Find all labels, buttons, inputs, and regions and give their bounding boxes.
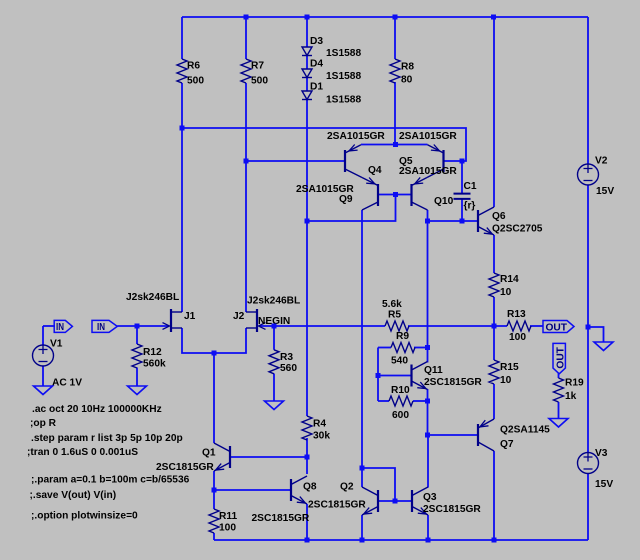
port flag IN at R12: [92, 320, 117, 333]
wire R7 to J2 drain: [245, 83, 247, 312]
svg-text:Q3: Q3: [423, 492, 437, 503]
svg-text:2SA1015GR: 2SA1015GR: [327, 131, 385, 142]
wire V1 to IN flag: [43, 325, 55, 327]
svg-text:R3: R3: [280, 352, 293, 363]
svg-text:600: 600: [392, 410, 409, 421]
svg-text:{r}: {r}: [464, 201, 476, 212]
svg-text:J1: J1: [184, 311, 196, 322]
svg-text:Q1: Q1: [202, 448, 216, 459]
directive ;.option: [31, 511, 138, 522]
svg-text:80: 80: [401, 75, 413, 86]
svg-text:10: 10: [500, 375, 512, 386]
wire Q9 collector down to mirror: [361, 210, 363, 468]
wire Q10 collector / VAS node down: [427, 210, 429, 348]
ground under R19: [549, 419, 568, 428]
svg-text:OUT: OUT: [556, 346, 567, 368]
svg-text:J2: J2: [233, 311, 245, 322]
port flag OUT: [543, 321, 574, 334]
wire VAS node to Q6 base: [428, 220, 479, 222]
svg-text:2SC1815GR: 2SC1815GR: [156, 462, 214, 473]
transistor Q9 2SA1015GR: [296, 178, 378, 211]
svg-text:100: 100: [509, 332, 526, 343]
node Q8 emitter/bottom rail: [305, 538, 310, 543]
node Q9-Q10 bases: [393, 192, 398, 197]
svg-text:AC 1V: AC 1V: [52, 378, 82, 389]
wire OUT flag to R19: [558, 373, 560, 378]
svg-text:100: 100: [219, 523, 236, 534]
svg-text:R10: R10: [391, 385, 410, 396]
node Q5 base/C1: [460, 159, 465, 164]
wire R9 left lead: [378, 347, 391, 349]
svg-text:R19: R19: [565, 378, 584, 389]
svg-text:15V: 15V: [596, 186, 614, 197]
wire R14 to OUT node: [493, 297, 495, 326]
wire R12 to ground: [136, 368, 138, 387]
svg-text:D4: D4: [310, 59, 323, 70]
wire top V+ rail: [182, 16, 588, 18]
svg-text:;op R: ;op R: [30, 418, 57, 429]
svg-text:;.save V(out) V(in): ;.save V(out) V(in): [30, 490, 117, 501]
svg-text:1S1588: 1S1588: [326, 48, 361, 59]
wire Q2 collector up: [361, 468, 363, 487]
svg-text:2SC1815GR: 2SC1815GR: [252, 513, 310, 524]
svg-text:R7: R7: [251, 61, 264, 72]
wire C1 bottom lead: [461, 200, 463, 222]
resistor R12: [132, 344, 166, 370]
wire C1 top lead: [461, 161, 463, 193]
wire R10 left lead: [378, 400, 389, 402]
node R10/Q11 emitter: [425, 399, 430, 404]
transistor Q6 Q2SC2705: [478, 207, 543, 235]
node OUT/R14/R15: [492, 324, 497, 329]
svg-text:Q4: Q4: [368, 165, 382, 176]
resistor R3: [269, 350, 297, 374]
wire R11 top lead: [213, 490, 215, 509]
transistor Q2 2SC1815GR: [340, 482, 378, 516]
resistor R8: [390, 59, 414, 86]
svg-text:V3: V3: [595, 448, 608, 459]
port flag IN at V1: [54, 320, 72, 333]
transistor Q3 2SC1815GR: [412, 487, 481, 515]
wire R9/R10 left loop: [377, 348, 379, 402]
node Q7 collector/bottom rail: [492, 538, 497, 543]
node C1/Q6 base: [460, 219, 465, 224]
svg-text:500: 500: [187, 76, 204, 87]
port flag OUT vertical: [553, 343, 567, 373]
svg-text:J2sk246BL: J2sk246BL: [126, 292, 179, 303]
svg-text:1S1588: 1S1588: [326, 71, 361, 82]
node Q2 emitter/bottom rail: [360, 538, 365, 543]
node R9/Q11 collector: [425, 345, 430, 350]
wire R3 to ground: [273, 374, 275, 401]
resistor R9: [391, 331, 415, 367]
transistor Q1 2SC1815GR: [156, 443, 230, 473]
svg-text:OUT: OUT: [546, 323, 568, 334]
directive ;.param: [31, 475, 190, 486]
node Q4-Q5 emitters/R8: [393, 142, 398, 147]
wire Q2 diode connection loop: [362, 468, 395, 501]
resistor R13: [507, 309, 531, 343]
wire Q1 emitter to Q8 base: [214, 489, 291, 491]
svg-text:D3: D3: [310, 36, 323, 47]
wire Q1 emitter down: [213, 471, 215, 490]
node diode bias/R4: [305, 219, 310, 224]
resistor R7: [241, 59, 268, 87]
resistor R6: [177, 59, 204, 87]
wire Q3 emitter to rail: [427, 515, 429, 540]
svg-text:R14: R14: [500, 274, 519, 285]
wire Q2 base to node: [378, 500, 395, 502]
voltage source V3 15V: [578, 448, 614, 490]
wire Q11 collector to R9 node: [427, 348, 429, 363]
svg-text:5.6k: 5.6k: [382, 299, 402, 310]
transistor Q5 2SA1015GR: [399, 131, 457, 178]
svg-text:R12: R12: [143, 347, 162, 358]
node diode chain/top rail: [305, 15, 310, 20]
node IN/R12: [135, 324, 140, 329]
directive ;tran: [27, 447, 138, 458]
svg-text:30k: 30k: [313, 431, 330, 442]
node R7/Q4 base: [244, 159, 249, 164]
svg-text:560: 560: [280, 363, 297, 374]
diode D3: [302, 36, 361, 59]
ground under V1: [34, 386, 53, 395]
wire mirror bases: [395, 500, 412, 502]
wire V2 minus to supply midpoint: [587, 185, 589, 327]
wire R7 top lead: [245, 17, 247, 59]
wire bottom rail: [214, 539, 588, 541]
svg-text:;tran 0 1.6uS 0 0.001uS: ;tran 0 1.6uS 0 0.001uS: [27, 447, 138, 458]
wire Q11 emitter to R10 node and Q7 base: [427, 389, 429, 435]
voltage source V1 AC 1V: [33, 339, 83, 389]
wire top rail to D3: [306, 17, 308, 47]
node Q10 collector/Q6 base wire: [425, 219, 430, 224]
svg-text:V2: V2: [595, 156, 608, 167]
transistor Q11 2SC1815GR: [412, 362, 483, 390]
wire R12 top lead: [136, 326, 138, 344]
svg-text:IN: IN: [97, 322, 105, 333]
wire R6 to J1 drain: [181, 83, 183, 312]
wire R15 to Q7 emitter: [493, 384, 495, 419]
svg-text:D1: D1: [310, 82, 323, 93]
resistor R19: [554, 378, 585, 403]
node Q2-Q3 bases: [393, 499, 398, 504]
svg-text:.step param r list 3p 5p 10p 2: .step param r list 3p 5p 10p 20p: [31, 433, 183, 444]
resistor R11: [209, 509, 237, 534]
node Q3 emitter/bottom rail: [426, 538, 431, 543]
svg-text:1S1588: 1S1588: [326, 95, 361, 106]
resistor R10: [389, 385, 413, 421]
transistor Q7 Q2SA1145: [478, 419, 550, 451]
wire OUT node to R15: [493, 326, 495, 360]
transistor Q4 2SA1015GR: [327, 131, 385, 178]
node Q6 collector/top rail: [491, 15, 496, 20]
svg-text:Q2: Q2: [340, 482, 354, 493]
wire Q9-Q10 base tie: [378, 194, 412, 196]
svg-text:2SA1015GR: 2SA1015GR: [399, 131, 457, 142]
net label NEGIN: [258, 316, 290, 327]
node Q1 base/R4/Q8 collector: [305, 455, 310, 460]
wire IN to J1 gate: [117, 325, 168, 327]
wire V+ rail to V2: [587, 17, 589, 164]
transistor Q8 2SC1815GR: [252, 476, 367, 524]
wire Q4/Q5 emitter node: [361, 144, 428, 146]
svg-text:R6: R6: [187, 61, 200, 72]
wire Q7 collector to bottom rail: [493, 451, 495, 540]
resistor R4: [302, 416, 330, 442]
wire D1 cathode down to R4: [306, 100, 308, 417]
wire NEGIN J2 gate to R5: [260, 325, 386, 327]
wire D3 to D4: [306, 56, 308, 70]
svg-text:J2sk246BL: J2sk246BL: [247, 296, 300, 307]
svg-text:1k: 1k: [565, 391, 577, 402]
svg-text:Q6: Q6: [492, 211, 506, 222]
svg-text:V1: V1: [50, 339, 63, 350]
svg-text:10: 10: [500, 287, 512, 298]
svg-text:Q11: Q11: [424, 365, 443, 376]
node R7/top rail: [244, 15, 249, 20]
wire R6 node to Q5 base: [182, 128, 466, 161]
svg-text:Q2SC2705: Q2SC2705: [492, 224, 543, 235]
wire R3 top lead: [273, 326, 275, 350]
svg-text:Q10: Q10: [434, 196, 454, 207]
svg-text:Q8: Q8: [303, 482, 317, 493]
svg-text:IN: IN: [56, 322, 64, 333]
node supply midpoint ground: [586, 325, 591, 330]
wire Q4 base to R7 node: [246, 160, 345, 162]
svg-text:.ac oct 20 10Hz 100000KHz: .ac oct 20 10Hz 100000KHz: [32, 404, 162, 415]
wire Q11 base: [378, 375, 412, 377]
node Q2 collector/Q9 collector: [360, 466, 365, 471]
directive .ac: [32, 404, 162, 415]
wire Q7 base: [428, 434, 479, 436]
diode D4: [302, 59, 361, 83]
wire Q6 collector to top rail: [493, 17, 495, 207]
svg-text:2SC1815GR: 2SC1815GR: [424, 377, 482, 388]
wire Q2 emitter to rail: [361, 515, 363, 540]
svg-text:2SA1015GR: 2SA1015GR: [399, 166, 457, 177]
resistor R14: [489, 273, 519, 298]
wire R9 right lead: [414, 347, 428, 349]
transistor Q10 2SA1015GR: [412, 177, 454, 210]
svg-text:2SC1815GR: 2SC1815GR: [308, 500, 366, 511]
wire R13 to OUT flag: [530, 325, 543, 327]
wire Q1 base to node: [230, 456, 307, 458]
svg-text:R8: R8: [401, 62, 414, 73]
ground under R12: [128, 386, 147, 395]
wire R10 right lead: [413, 400, 428, 402]
wire cascode base bias to diode node: [307, 195, 396, 222]
wire J1/J2 source tail: [182, 328, 246, 353]
wire R11 bottom lead: [213, 533, 215, 540]
wire R6 top lead: [181, 17, 183, 59]
wire V1 top lead: [42, 326, 44, 345]
resistor R5: [382, 299, 409, 331]
svg-text:560k: 560k: [143, 359, 166, 370]
node Q1 emitter/Q8 base/R11: [212, 488, 217, 493]
node Q7 base/VAS: [425, 433, 430, 438]
svg-text:500: 500: [251, 76, 268, 87]
svg-text:R13: R13: [507, 309, 526, 320]
diode D1: [302, 82, 361, 106]
wire R8 top lead: [394, 17, 396, 59]
svg-text:Q7: Q7: [500, 439, 514, 450]
node NEGIN/R3: [272, 324, 277, 329]
wire Q3 collector up: [427, 435, 429, 488]
wire V3 minus to bottom rail: [587, 474, 589, 541]
svg-text:Q9: Q9: [339, 194, 353, 205]
wire midpoint to V3 plus: [587, 327, 589, 453]
svg-text:R11: R11: [219, 511, 237, 522]
node Q11 base/loop: [376, 373, 381, 378]
wire R4 to Q1 base node: [306, 438, 308, 457]
directive .step: [31, 433, 183, 444]
wire Q8 emitter to rail: [306, 504, 308, 540]
node R8/top rail: [393, 15, 398, 20]
node R6/J1 drain/Q5 base wire: [180, 126, 185, 131]
svg-text:C1: C1: [464, 181, 477, 192]
capacitor C1 {r}: [454, 181, 477, 212]
svg-text:;.param a=0.1 b=100m c=b/65536: ;.param a=0.1 b=100m c=b/65536: [31, 475, 190, 486]
svg-text:R4: R4: [313, 419, 326, 430]
wire R19 to ground: [558, 402, 560, 419]
ground under R3: [265, 401, 284, 410]
JFET J1 J2sk246BL: [126, 292, 196, 332]
svg-text:;.option plotwinsize=0: ;.option plotwinsize=0: [31, 511, 138, 522]
wire Q6 emitter to R14: [493, 235, 495, 273]
wire R8 to emitter node: [394, 82, 396, 145]
directive ;.save: [30, 490, 117, 501]
svg-text:Q2SA1145: Q2SA1145: [500, 425, 550, 436]
wire R5 to R13: [408, 325, 507, 327]
wire tail to Q1 collector: [213, 353, 215, 443]
ground supply midpoint: [594, 342, 613, 351]
svg-text:15V: 15V: [595, 479, 613, 490]
svg-text:2SC1815GR: 2SC1815GR: [423, 504, 481, 515]
resistor R15: [489, 360, 519, 386]
node JFET sources tail: [212, 351, 217, 356]
svg-text:R15: R15: [500, 362, 519, 373]
JFET J2 J2sk246BL: [233, 296, 300, 333]
directive ;op: [30, 418, 57, 429]
wire midpoint ground stub: [588, 327, 604, 342]
wire D4 to D1: [306, 78, 308, 92]
wire V1 to ground: [42, 366, 44, 386]
svg-text:R9: R9: [396, 331, 409, 342]
svg-text:540: 540: [391, 356, 408, 367]
wire Q8 collector up to Q1 base node: [306, 457, 308, 474]
voltage source V2 15V: [578, 156, 615, 198]
svg-text:R5: R5: [388, 310, 401, 321]
